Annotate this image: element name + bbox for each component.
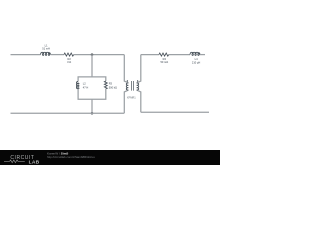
CircuitLab logo CIRCUIT text [10,155,34,161]
wire parallel-section bottom rail [78,89,106,99]
svg-text:51 mH: 51 mH [42,47,50,51]
inductor L1 [41,43,51,55]
wire parallel-section top rail [78,77,106,82]
watermark author line [47,152,68,156]
wire transformer primary top lead [124,55,128,83]
watermark bar [0,150,220,165]
svg-text:210 µH: 210 µH [192,60,201,64]
wire transformer primary bottom lead [124,90,128,113]
svg-text:50 mΩ: 50 mΩ [160,60,168,64]
svg-text:R3: R3 [109,82,113,86]
wire bottom-right from transformer to right end [141,111,209,113]
wire transformer secondary bottom lead [137,90,141,112]
resistor R2 [64,53,74,64]
inductor L2 (left branch, vertical) [76,81,88,89]
inductor L4 [190,52,200,64]
wire L1 to R2 [51,54,65,56]
svg-text:http://circuitlab.com/c/Samb8R: http://circuitlab.com/c/Samb8RGbzuu [47,155,95,159]
wire riser from parallel section down to bottom bus [91,99,93,113]
transformer XFMR1 [126,80,138,99]
node junction top at x=92 [91,53,94,56]
CircuitLab logo LAB text [29,159,40,165]
wire top-left from left terminal to L1 [11,54,41,56]
svg-text:47 H: 47 H [83,85,89,89]
wire bottom-left bus [11,112,125,114]
wire transformer secondary top to R4 [141,54,159,56]
resistor R4 [159,53,169,64]
wire transformer secondary top lead [137,55,141,83]
watermark url line [47,155,95,159]
svg-text:500 kΩ: 500 kΩ [109,85,117,89]
wire riser from top bus down to parallel section [91,55,93,77]
CircuitLab logo resistor squiggle [4,160,25,163]
node junction bottom at x=92 [91,112,94,115]
resistor R3 (right branch, vertical) [104,81,117,89]
wire R2 to transformer primary top corner [74,54,125,56]
svg-text:3 Ω: 3 Ω [67,60,71,64]
svg-text:XFMR1: XFMR1 [127,96,136,100]
svg-text:LAB: LAB [29,159,40,165]
wire L4 to right end [200,54,205,56]
wire R4 to L4 [169,54,190,56]
